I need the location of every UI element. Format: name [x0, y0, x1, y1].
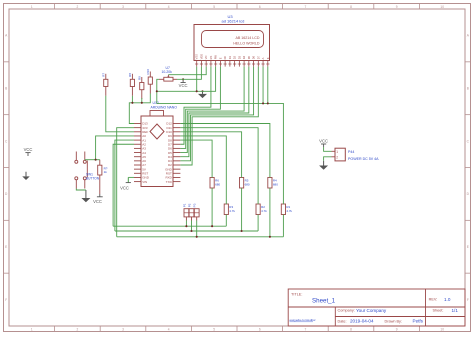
svg-text:VCC: VCC — [179, 83, 188, 88]
svg-text:1/1: 1/1 — [452, 308, 459, 313]
svg-text:2: 2 — [77, 328, 79, 332]
wire pot right to LCD VDD (VCC) — [177, 67, 201, 80]
svg-text:10: 10 — [440, 328, 444, 332]
svg-text:B: B — [5, 86, 7, 90]
svg-text:P1: P1 — [182, 203, 186, 207]
svg-text:R10: R10 — [146, 69, 150, 75]
vcc flag at P44 — [319, 139, 328, 147]
svg-text:B: B — [467, 86, 469, 90]
wire nano D11 to R2 column — [180, 128, 258, 204]
svg-text:10-20k: 10-20k — [162, 70, 173, 74]
vcc flag at potentiometer — [179, 79, 188, 88]
svg-text:easyeda.com/editor: easyeda.com/editor — [290, 318, 316, 322]
svg-text:TITLE:: TITLE: — [291, 292, 302, 296]
junction dot rail — [211, 225, 213, 227]
wire R2 to rail2 — [257, 215, 259, 232]
svg-text:Date:: Date: — [338, 319, 347, 323]
junction dot gnd rail left — [156, 90, 158, 92]
svg-text:5: 5 — [213, 5, 215, 9]
svg-text:E: E — [218, 57, 222, 59]
svg-text:Sheet:: Sheet: — [433, 309, 444, 313]
wire R5 to rail2 — [241, 188, 243, 231]
wire LCD VSS to gnd rail — [196, 67, 198, 92]
wire pot left leg down — [157, 79, 159, 103]
resistor R6 680 — [210, 178, 220, 189]
resistor R3 4.7k — [224, 204, 235, 215]
wire pullup R8 down — [131, 96, 133, 103]
svg-text:1: 1 — [31, 328, 33, 332]
connector P2 — [188, 203, 194, 220]
svg-text:4: 4 — [168, 328, 170, 332]
svg-text:9: 9 — [396, 5, 398, 9]
ground at lcd vss rail — [198, 90, 207, 98]
wire nano D12 to R4 column — [180, 124, 270, 178]
svg-text:4.7k: 4.7k — [229, 209, 235, 213]
rail1 bottom — [113, 225, 226, 227]
svg-text:680: 680 — [273, 183, 278, 187]
resistor R4 680 — [268, 178, 278, 189]
svg-text:10: 10 — [440, 5, 444, 9]
svg-text:5: 5 — [213, 328, 215, 332]
svg-text:ARDUINO NANO: ARDUINO NANO — [151, 105, 178, 109]
svg-text:6: 6 — [259, 328, 261, 332]
wire R6 to rail1 — [211, 188, 213, 226]
wire junction to R11 — [96, 159, 100, 161]
wire nano D5 to LCD D4 — [180, 67, 244, 153]
svg-text:1.0: 1.0 — [444, 297, 451, 302]
svg-text:VCC: VCC — [120, 186, 129, 191]
connector P1 — [182, 203, 188, 220]
svg-text:VCC: VCC — [319, 139, 328, 144]
wire R3 to rail1 — [225, 215, 227, 227]
svg-text:4: 4 — [168, 5, 170, 9]
svg-text:E: E — [5, 245, 7, 249]
lcd module U3 — [194, 14, 270, 66]
wire conn P1 to rail1 — [185, 221, 187, 227]
junction dot button — [95, 159, 97, 161]
wire nano GND to vcc flag — [128, 176, 134, 178]
wire nano D4 to LCD D5 — [180, 67, 248, 157]
svg-text:AB 16214 LCD: AB 16214 LCD — [236, 36, 260, 40]
svg-text:7: 7 — [305, 5, 307, 9]
resistor R7 pull-up — [102, 73, 108, 96]
junction dot vss gnd — [196, 90, 198, 92]
wire pot wiper to LCD VO — [168, 67, 206, 75]
junction dot rail — [269, 236, 271, 238]
connector P3 — [193, 203, 199, 220]
wire conn P2 to rail2 — [191, 221, 193, 232]
wire vcc line to R1 — [157, 103, 284, 204]
svg-text:4.7k: 4.7k — [261, 209, 267, 213]
resistor R1 4.7k — [281, 204, 292, 215]
rail2 bottom — [115, 230, 258, 232]
svg-text:D3: D3 — [237, 55, 241, 59]
wire P44 pin2 to gnd — [324, 157, 332, 161]
svg-text:6: 6 — [259, 5, 261, 9]
svg-text:RS: RS — [209, 55, 213, 59]
ground under button — [81, 190, 90, 202]
svg-text:1: 1 — [31, 5, 33, 9]
connector P44 — [332, 148, 380, 161]
svg-text:D4: D4 — [242, 55, 246, 59]
resistor R11 1k — [98, 160, 108, 194]
svg-text:2: 2 — [77, 5, 79, 9]
resistor R8 pull-up — [128, 73, 134, 96]
svg-text:1: 1 — [336, 150, 338, 154]
svg-text:Petfs: Petfs — [413, 319, 424, 324]
svg-text:D1: D1 — [228, 55, 232, 59]
svg-text:1k: 1k — [104, 170, 108, 174]
svg-text:F: F — [5, 298, 7, 302]
junction dot rail — [241, 230, 243, 232]
svg-text:8: 8 — [350, 328, 352, 332]
vcc flag under resistor R11 — [93, 194, 103, 204]
svg-text:7: 7 — [305, 328, 307, 332]
wire vcc to P44 pin1 — [324, 147, 332, 151]
svg-text:P3: P3 — [193, 203, 197, 207]
svg-text:4.7k: 4.7k — [286, 209, 292, 213]
wire button junction — [85, 159, 96, 161]
rail3 bottom — [117, 236, 284, 238]
wire pullup R9 join — [141, 98, 143, 103]
svg-text:K: K — [266, 57, 270, 59]
svg-text:P44: P44 — [348, 150, 354, 154]
wire LCD K to vcc line — [267, 67, 269, 104]
wire gnd rail under LCD — [157, 67, 216, 92]
wire conn P3 to rail3 — [196, 221, 198, 237]
svg-text:VDD: VDD — [199, 54, 203, 60]
svg-text:D7: D7 — [256, 55, 260, 59]
junction dot rail — [196, 236, 198, 238]
svg-text:RW: RW — [214, 54, 218, 59]
vcc flag standalone left — [24, 147, 33, 156]
svg-text:REV:: REV: — [429, 298, 438, 302]
ground standalone left — [22, 172, 30, 180]
svg-text:P2: P2 — [188, 203, 192, 207]
wire button bottom to gnd — [76, 189, 86, 191]
wire nano D8 to R6 column — [180, 140, 212, 177]
svg-text:POWER DC 5V 4A: POWER DC 5V 4A — [348, 157, 379, 161]
junction dot rail — [190, 230, 192, 232]
junction dot lcd A — [262, 102, 264, 104]
wire nano D9 to R3 column — [180, 136, 226, 204]
svg-text:VCC: VCC — [93, 199, 102, 204]
svg-text:680: 680 — [215, 183, 220, 187]
junction dot rail — [185, 225, 187, 227]
svg-text:TXD: TXD — [166, 180, 173, 184]
resistor R10 pull-up — [146, 69, 152, 94]
svg-text:R8: R8 — [128, 73, 132, 77]
wire nano A0 to button — [96, 136, 134, 160]
ground at P44 — [319, 161, 328, 170]
vcc flag under nano 5v — [120, 177, 131, 190]
svg-text:HELLO WORLD: HELLO WORLD — [233, 42, 260, 46]
svg-text:D0: D0 — [223, 55, 227, 59]
resistor R9 pull-up — [138, 76, 144, 99]
svg-text:Drawn By:: Drawn By: — [385, 319, 403, 323]
svg-text:F: F — [467, 298, 469, 302]
wire nano D6 to LCD E — [180, 67, 220, 149]
wire R4 to rail3 — [269, 188, 271, 237]
wire nano D2 to LCD D7 — [180, 67, 258, 165]
svg-text:ad 16214 lcd: ad 16214 lcd — [222, 19, 245, 24]
push button SW1 — [75, 152, 100, 189]
svg-text:Your Company: Your Company — [356, 308, 387, 313]
svg-text:8: 8 — [350, 5, 352, 9]
svg-text:Company:: Company: — [338, 309, 355, 313]
svg-text:D2: D2 — [233, 55, 237, 59]
wire nano D13 to pullup R10 — [129, 94, 150, 124]
potentiometer U7 10-20k — [159, 66, 177, 81]
wire nano D7 to LCD RS — [180, 67, 211, 145]
resistor R2 4.7k — [256, 204, 267, 215]
wire nano A1 to rail2 — [115, 140, 134, 231]
wire pullup R7 to nano REF — [106, 96, 134, 132]
svg-text:R7: R7 — [102, 73, 106, 77]
svg-text:A: A — [261, 57, 265, 59]
wire nano A2 to rail1 — [113, 144, 134, 226]
svg-text:Sheet_1: Sheet_1 — [312, 298, 336, 305]
svg-text:VIN: VIN — [142, 180, 147, 184]
wire R1 to rail3 — [282, 215, 284, 237]
svg-text:3: 3 — [122, 328, 124, 332]
svg-text:680: 680 — [245, 183, 250, 187]
resistor R5 680 — [240, 178, 250, 189]
svg-text:2: 2 — [336, 155, 338, 159]
junction dot pullup R8 — [131, 102, 133, 104]
junction dot pot vcc — [182, 78, 184, 80]
wire nano 3V3 to rail3 — [117, 128, 134, 237]
svg-text:9: 9 — [396, 328, 398, 332]
junction dot lcd K — [267, 102, 269, 104]
svg-text:VO: VO — [204, 56, 208, 60]
svg-text:2019-04-04: 2019-04-04 — [350, 319, 374, 324]
svg-text:D6: D6 — [252, 55, 256, 59]
svg-text:VSS: VSS — [195, 54, 199, 59]
title block — [288, 289, 465, 326]
svg-text:3: 3 — [122, 5, 124, 9]
svg-text:VCC: VCC — [24, 147, 33, 152]
svg-text:D5: D5 — [247, 55, 251, 59]
svg-text:E: E — [467, 245, 469, 249]
arduino nano U12 — [134, 101, 180, 187]
junction dot pullup R9 — [141, 102, 143, 104]
svg-text:BUTTON: BUTTON — [86, 176, 100, 180]
wire nano D3 to LCD D6 — [180, 67, 253, 161]
wire nano D10 to R5 column — [180, 132, 241, 178]
svg-text:R9: R9 — [138, 76, 142, 80]
wire LCD A to vcc line — [262, 67, 264, 104]
